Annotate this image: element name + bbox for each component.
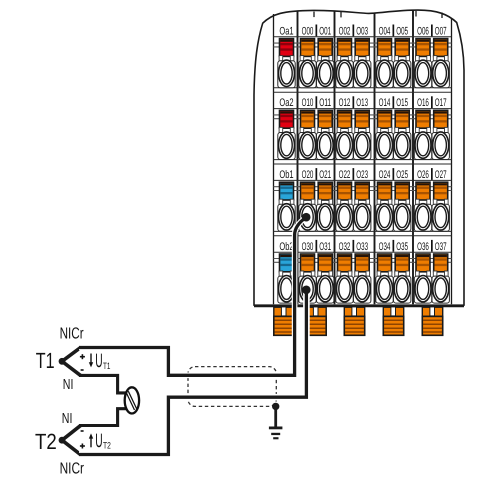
terminal O20 wire dot (302, 213, 311, 222)
row 1 bus lines (274, 43, 452, 47)
svg-text:O32: O32 (339, 241, 351, 253)
row 1 clamps O02 O03 (orange) (337, 39, 352, 61)
svg-text:NI: NI (62, 411, 73, 427)
svg-text:T1: T1 (103, 361, 110, 371)
wire Ni from T1 to junction screw (79, 375, 126, 393)
ground symbol (269, 427, 283, 440)
svg-text:O17: O17 (435, 97, 447, 109)
svg-text:O22: O22 (339, 169, 351, 181)
row 3 clamps O26 O27 (orange) (416, 182, 431, 204)
svg-text:O35: O35 (396, 241, 408, 253)
svg-text:O30: O30 (302, 241, 314, 253)
wire NiCr from T1 through shield to terminal O20 (79, 217, 306, 375)
row 4 wire entry holes (278, 276, 450, 304)
svg-text:O31: O31 (319, 241, 331, 253)
wire NiCr from T2 through shield to terminal O30 (79, 290, 306, 455)
svg-text:O23: O23 (356, 169, 368, 181)
row 1 separator lines (274, 37, 452, 88)
svg-text:Oa1: Oa1 (279, 25, 293, 37)
row 2 wire entry holes (278, 132, 450, 160)
row 4 clamps O30 O31 (orange) (300, 254, 315, 276)
row 1 clamps O06 O07 (orange) (416, 39, 431, 61)
svg-text:T2: T2 (103, 441, 111, 451)
svg-text:O16: O16 (417, 97, 429, 109)
svg-text:U: U (95, 350, 102, 372)
wire Ni from T2 to junction screw (79, 409, 126, 426)
svg-text:NI: NI (63, 377, 74, 393)
svg-text:O05: O05 (396, 25, 408, 37)
svg-text:NICr: NICr (60, 326, 84, 343)
thermocouple T2 branch wires (62, 426, 81, 455)
row 1 clamps O00 O01 (orange) (300, 39, 315, 61)
svg-text:O34: O34 (379, 241, 391, 253)
plug foot 2 (306, 307, 326, 335)
housing top notch ticks (314, 11, 442, 18)
row 3 clamps O24 O25 (orange) (377, 182, 392, 204)
row 1 clamps O04 O05 (orange) (377, 39, 392, 61)
svg-text:O10: O10 (302, 97, 314, 109)
row 2 clamps O12 O13 (orange) (337, 110, 352, 132)
row 1 pin labels Oa1 O00 O01 O02 O03 O04 O05 O06 O07 (279, 25, 446, 38)
svg-text:O07: O07 (435, 25, 447, 37)
row 2 bus lines (274, 115, 452, 119)
row 2 clamp Oa2 (red) (279, 110, 294, 132)
thermocouple T1 junction dot (59, 358, 66, 365)
junction screw (Ni-Ni) (125, 387, 139, 413)
row 2 clamps O16 O17 (orange) (416, 110, 431, 132)
svg-text:O36: O36 (417, 241, 429, 253)
svg-text:O04: O04 (379, 25, 391, 37)
svg-text:O03: O03 (356, 25, 368, 37)
plug foot 1 (274, 307, 294, 335)
row 3 bus lines (274, 187, 452, 191)
svg-text:O13: O13 (356, 97, 368, 109)
row 4 pin labels Ob2 O30 O31 O32 O33 O34 O35 O36 O37 (279, 240, 446, 253)
svg-text:O33: O33 (356, 241, 368, 253)
svg-text:O24: O24 (379, 169, 391, 181)
svg-text:O06: O06 (417, 25, 429, 37)
row 4 clamp Ob2 (blue) (279, 254, 294, 276)
row 1 wire entry holes (278, 60, 450, 88)
row 3 wire entry holes (278, 204, 450, 232)
svg-text:NICr: NICr (60, 460, 85, 477)
row 2 clamps O10 O11 (orange) (300, 110, 315, 132)
svg-text:O26: O26 (417, 169, 429, 181)
row 4 clamps O36 O37 (orange) (416, 254, 431, 276)
row 4 bus lines (274, 259, 452, 263)
svg-text:U: U (95, 430, 102, 452)
svg-text:O12: O12 (339, 97, 351, 109)
svg-text:O27: O27 (435, 169, 447, 181)
thermocouple T1 branch wires (62, 348, 81, 376)
row 4 clamps O34 O35 (orange) (377, 254, 392, 276)
plug foot 5 (422, 307, 442, 335)
row 3 separator lines (274, 164, 452, 231)
polarity marks T1 (80, 354, 85, 370)
svg-text:O11: O11 (319, 97, 331, 109)
shield drain connection dot (272, 403, 279, 410)
arrow U_T2 (up) (89, 433, 93, 447)
arrow U_T1 (down) (89, 354, 93, 368)
svg-text:O15: O15 (396, 97, 408, 109)
row 1 clamp Oa1 (red) (279, 39, 294, 61)
svg-text:Ob2: Ob2 (279, 241, 293, 253)
row 3 pin labels Ob1 O20 O21 O22 O23 O24 O25 O26 O27 (279, 168, 446, 181)
svg-text:T2: T2 (35, 429, 57, 454)
module divider lines (274, 10, 452, 304)
svg-text:O37: O37 (435, 241, 447, 253)
terminal O30 wire dot (302, 286, 311, 295)
row 3 clamp Ob1 (blue) (279, 182, 294, 204)
svg-text:O21: O21 (319, 169, 331, 181)
row 4 clamps O32 O33 (orange) (337, 254, 352, 276)
svg-text:O14: O14 (379, 97, 391, 109)
plug foot 4 (383, 307, 403, 335)
svg-text:O02: O02 (339, 25, 351, 37)
svg-text:Ob1: Ob1 (279, 169, 293, 181)
wire shield to ground (274, 406, 277, 427)
svg-text:T1: T1 (36, 348, 55, 373)
row 3 clamps O22 O23 (orange) (337, 182, 352, 204)
row 2 clamps O14 O15 (orange) (377, 110, 392, 132)
svg-text:O00: O00 (302, 25, 314, 37)
svg-text:O20: O20 (302, 169, 314, 181)
thermocouple T2 junction dot (59, 437, 66, 444)
block bottom edge (254, 305, 464, 308)
polarity marks T2 (80, 431, 85, 449)
cable shield (dashed) (188, 367, 276, 407)
svg-text:O01: O01 (319, 25, 331, 37)
row 2 separator lines (274, 92, 452, 159)
row 3 clamps O20 O21 (orange) (300, 182, 315, 204)
terminal block body outline (254, 10, 464, 305)
svg-text:Oa2: Oa2 (279, 97, 293, 109)
plug foot 3 (344, 307, 364, 335)
row 4 separator lines (274, 236, 452, 252)
svg-text:O25: O25 (396, 169, 408, 181)
row 2 pin labels Oa2 O10 O11 O12 O13 O14 O15 O16 O17 (279, 96, 446, 109)
